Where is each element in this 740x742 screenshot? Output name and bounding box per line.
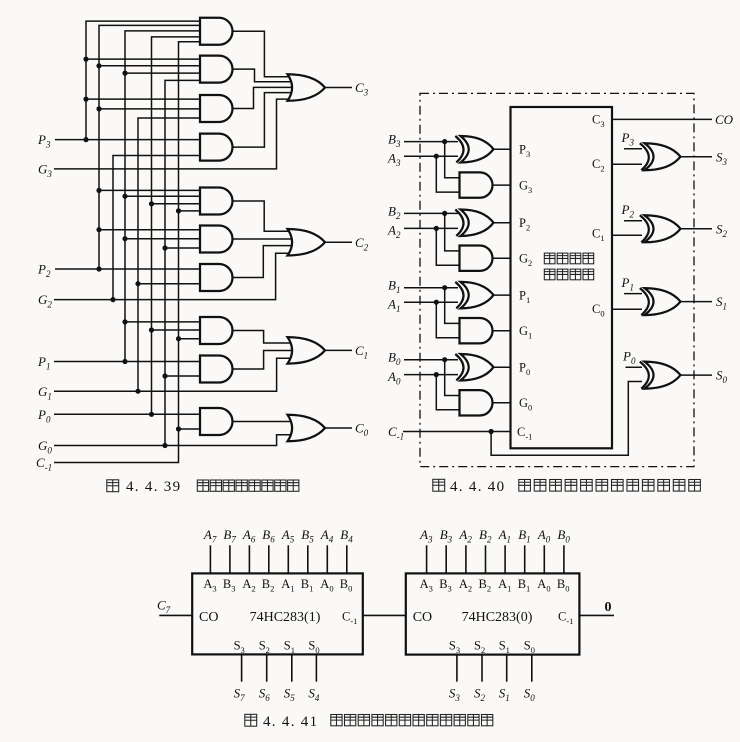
svg-text:4. 4. 40: 4. 4. 40 (450, 479, 505, 495)
and-gate A4 (200, 134, 233, 161)
and-gate G0 generator (460, 390, 493, 415)
wire pin S3 output U2 (456, 654, 458, 681)
wire net G1 (54, 118, 292, 394)
wire net G2 (54, 156, 292, 303)
wire net A2 (404, 226, 460, 265)
wire pin B4 input U1 (346, 545, 348, 573)
wire A2 output to OR C3 (233, 69, 293, 82)
svg-text:CO: CO (413, 610, 432, 625)
xor-gate P1 generator (455, 282, 493, 309)
and-gate A1 (200, 18, 232, 45)
wire net A1 (404, 300, 460, 338)
svg-text:4. 4. 39: 4. 4. 39 (126, 479, 181, 495)
wire A3 output to OR C3 (233, 87, 293, 108)
wire A6 output to OR C2 (233, 238, 293, 240)
xor-gate S3 (640, 143, 681, 170)
svg-text:4. 4. 41: 4. 4. 41 (263, 714, 318, 730)
wire net C-1 fig40 (403, 382, 642, 456)
wire A5 output to OR C2 (233, 201, 293, 231)
or-gate OR1 (C3) (288, 74, 326, 101)
svg-text:74HC283(0): 74HC283(0) (462, 610, 533, 625)
wire A10 output to OR C0 (233, 421, 293, 423)
wire pin B3 input U2 (445, 545, 447, 573)
wire pin S4 output U1 (315, 654, 317, 681)
wire P0 to block (493, 366, 510, 368)
wire P2 to block (493, 222, 510, 224)
xor-gate S1 (640, 288, 681, 315)
wire S3 output (681, 156, 713, 158)
wire pin B5 input U1 (307, 545, 309, 573)
wire C1 to XOR S1 (612, 234, 642, 236)
and-gate A7 (200, 264, 233, 291)
wire net P3 (55, 21, 200, 142)
wire output C1 (325, 349, 352, 351)
wire net B2 (404, 211, 460, 251)
wire pin S2 output U2 (481, 654, 483, 681)
wire C0 to XOR S0 (612, 308, 642, 310)
wire G1 to block (493, 330, 511, 332)
wire pin S5 output U1 (291, 654, 293, 681)
and-gate G1 generator (460, 318, 493, 343)
wire A8 output to OR C1 (233, 331, 293, 344)
block carry-lookahead unit (511, 107, 613, 448)
wire P3 to block (493, 148, 510, 150)
wire A7 output to OR C2 (233, 246, 293, 278)
wire pin A2 input U2 (465, 545, 467, 573)
wire pin A4 input U1 (326, 545, 328, 573)
wire G3 to block (493, 184, 511, 186)
wire net B3 (404, 139, 460, 178)
wire pin A3 input U2 (426, 545, 428, 573)
and-gate A3 (200, 95, 233, 122)
wire pin A1 input U2 (504, 545, 506, 573)
wire pin B7 input U1 (229, 545, 231, 573)
wire pin S7 output U1 (241, 654, 243, 681)
wire G2 to block (493, 257, 511, 259)
wire S0 output (681, 374, 713, 376)
chip U2 74HC283(0) (406, 573, 580, 654)
xor-gate P2 generator (455, 209, 493, 236)
wire net A3 (404, 154, 460, 193)
wire net G0 (54, 80, 291, 448)
and-gate G2 generator (460, 246, 493, 271)
dash-dot border fig40 (420, 93, 694, 466)
and-gate A9 (200, 356, 233, 383)
wire U1 C-1 to U2 CO (363, 614, 406, 616)
wire C7 input (159, 614, 192, 616)
wire net P0 (54, 37, 200, 417)
caption figure 4.4.40 (433, 479, 701, 495)
wire net B1 (404, 285, 460, 323)
wire net G3 (54, 99, 292, 169)
wire pin A6 input U1 (248, 545, 250, 573)
wire pin B0 input U2 (563, 545, 565, 573)
wire pin A5 input U1 (287, 545, 289, 573)
caption figure 4.4.41 (245, 714, 493, 730)
wire output C3 (325, 87, 352, 89)
or-gate OR4 (C0) (288, 415, 326, 442)
wire pin S0 output U2 (531, 654, 533, 681)
xor-gate P0 generator (455, 354, 493, 381)
wire A4 output to OR C3 (233, 93, 293, 148)
and-gate G3 generator (460, 172, 493, 197)
wire P0 stub to XOR S0 (626, 366, 643, 368)
xor-gate S0 (640, 362, 681, 389)
and-gate A8 (200, 317, 233, 344)
wire net B0 (404, 357, 460, 395)
svg-text:CO: CO (199, 610, 218, 625)
wire pin A7 input U1 (209, 545, 211, 573)
wire pin B2 input U2 (485, 545, 487, 573)
block text carry-lookahead (544, 253, 593, 280)
svg-text:CO: CO (715, 112, 734, 127)
wire S1 output (681, 301, 713, 303)
wire G0 to block (493, 402, 511, 404)
wire P1 to block (493, 294, 510, 296)
wire output C2 (325, 241, 352, 243)
and-gate A10 (200, 408, 232, 435)
chip U1 74HC283(1) (192, 573, 363, 654)
wire pin B6 input U1 (268, 545, 270, 573)
wire pin A0 input U2 (543, 545, 545, 573)
wire A1 output to OR C3 (233, 31, 293, 76)
wire P1 stub to XOR S1 (624, 293, 642, 295)
wire pin S1 output U2 (506, 654, 508, 681)
wire output C0 (325, 427, 352, 429)
wire net P1 (54, 31, 200, 364)
and-gate A2 (200, 56, 233, 83)
wire U2 C-1 output to 0 (579, 614, 614, 616)
wire A9 output to OR C1 (233, 351, 293, 370)
wire C3 to CO (612, 118, 712, 120)
wire net A0 (404, 372, 460, 410)
or-gate OR3 (C1) (288, 337, 326, 364)
or-gate OR2 (C2) (288, 229, 326, 256)
wire pin B1 input U2 (524, 545, 526, 573)
and-gate A6 (200, 226, 233, 253)
wire net C-1 fig39 (54, 42, 200, 463)
caption figure 4.4.39 (107, 479, 299, 495)
svg-text:0: 0 (605, 600, 612, 615)
svg-text:74HC283(1): 74HC283(1) (250, 610, 321, 625)
xor-gate S2 (640, 215, 681, 242)
and-gate A5 (200, 188, 233, 215)
xor-gate P3 generator (455, 136, 493, 163)
wire net P2 (55, 25, 200, 271)
wire P3 stub to XOR S3 (624, 148, 642, 150)
wire P2 stub to XOR S2 (624, 220, 642, 222)
wire pin S6 output U1 (266, 654, 268, 681)
wire C2 to XOR S2 (612, 163, 642, 165)
wire S2 output (681, 228, 713, 230)
